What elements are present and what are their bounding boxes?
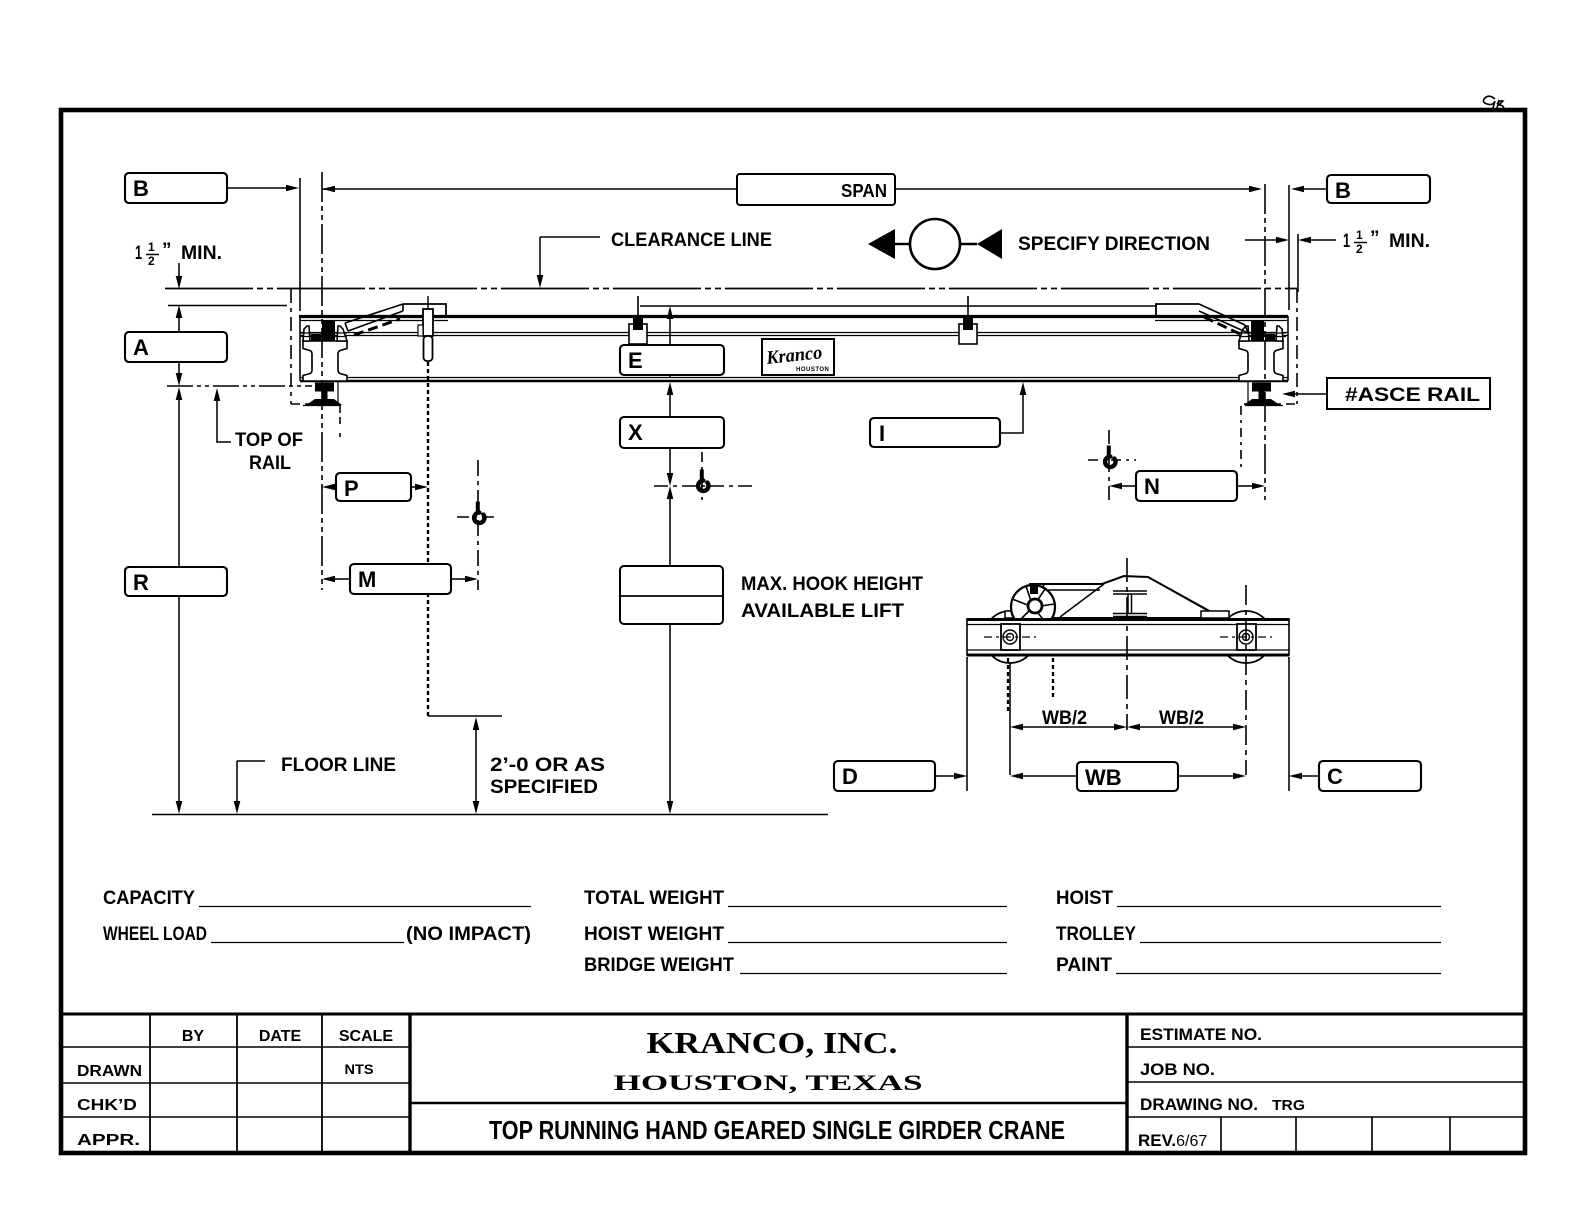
specify direction symbol xyxy=(868,219,1002,269)
trolley girder side view xyxy=(967,619,1289,655)
label box WB xyxy=(1077,762,1178,791)
label box P xyxy=(336,473,411,501)
svg-text:D: D xyxy=(842,764,858,789)
svg-text:B: B xyxy=(1335,178,1351,203)
hook height level arrows xyxy=(669,448,671,473)
trolley frame xyxy=(1005,576,1229,618)
girder fitting at E xyxy=(629,296,647,344)
hook centerline left xyxy=(477,460,479,590)
svg-text:HOUSTON: HOUSTON xyxy=(796,367,829,373)
svg-text:WB/2: WB/2 xyxy=(1159,708,1204,729)
girder bottom flange lines xyxy=(300,377,1288,379)
right platform xyxy=(1156,304,1199,316)
left wheel extension xyxy=(1009,663,1011,775)
text 1-1/2 MIN right xyxy=(1343,228,1430,256)
title block top border xyxy=(61,1013,1523,1016)
label box A xyxy=(125,332,227,362)
svg-text:B: B xyxy=(133,176,149,201)
svg-text:DRAWN: DRAWN xyxy=(77,1063,142,1080)
2-0 dimension line xyxy=(475,730,477,801)
B left leader xyxy=(227,187,286,189)
svg-text:MIN.: MIN. xyxy=(1389,231,1430,252)
svg-text:WB: WB xyxy=(1085,765,1122,790)
svg-text:C: C xyxy=(1327,764,1343,789)
clearance line xyxy=(165,288,1297,290)
end truck hidden outline left xyxy=(290,289,292,404)
WB/2 dimension lines xyxy=(1023,726,1233,728)
ASCE leader xyxy=(1295,393,1327,395)
svg-text:BY: BY xyxy=(182,1028,205,1045)
span dimension line xyxy=(322,188,1259,190)
left end truck wheel and rail xyxy=(300,321,347,406)
A dimension arrows xyxy=(178,318,180,332)
svg-text:AVAILABLE LIFT: AVAILABLE LIFT xyxy=(741,601,904,622)
rail centerline left xyxy=(321,172,323,590)
hoist chain xyxy=(427,362,429,716)
extension line girder end left xyxy=(299,178,301,311)
X line to floor xyxy=(669,624,671,801)
svg-text:1: 1 xyxy=(1356,228,1363,242)
R dimension line lower xyxy=(178,596,180,801)
svg-text:2: 2 xyxy=(148,254,155,268)
svg-text:1: 1 xyxy=(135,243,142,264)
girder end faces xyxy=(300,316,1288,381)
hook symbol N xyxy=(1107,446,1111,457)
rail centerline right xyxy=(1264,184,1266,500)
svg-text:CLEARANCE LINE: CLEARANCE LINE xyxy=(611,230,772,251)
label box SPAN xyxy=(737,174,895,205)
chain end bar xyxy=(428,715,502,717)
I leader xyxy=(1000,395,1023,433)
label box E xyxy=(620,345,724,375)
hidden hoist dash right xyxy=(1240,406,1242,470)
svg-text:R: R xyxy=(133,570,149,595)
right end truck wheel and rail xyxy=(1239,321,1286,406)
svg-text:CHK’D: CHK’D xyxy=(77,1097,137,1114)
B right leader xyxy=(1304,188,1327,190)
top of rail line xyxy=(167,385,312,387)
svg-text:SCALE: SCALE xyxy=(339,1028,394,1045)
girder top reference line left xyxy=(168,305,287,307)
label box I xyxy=(870,418,1000,447)
label box N xyxy=(1136,471,1237,501)
P arrows xyxy=(322,484,335,491)
svg-text:RAIL: RAIL xyxy=(249,453,291,474)
end truck hidden outline right xyxy=(1296,289,1298,404)
svg-text:MIN.: MIN. xyxy=(181,243,222,264)
svg-text:BRIDGE WEIGHT: BRIDGE WEIGHT xyxy=(584,955,734,976)
axle journal left xyxy=(984,624,1036,650)
svg-text:A: A xyxy=(133,335,149,360)
svg-text:DRAWING NO.: DRAWING NO. xyxy=(1140,1095,1258,1114)
label box B right xyxy=(1327,175,1430,203)
right diagonal brace xyxy=(1199,304,1248,333)
X upper arrow xyxy=(669,395,671,417)
svg-text:DATE: DATE xyxy=(259,1028,302,1045)
hand chains below xyxy=(1007,658,1009,712)
hand chain wheel xyxy=(1011,585,1055,629)
label box C xyxy=(1319,761,1421,791)
svg-text:HOIST: HOIST xyxy=(1056,888,1113,909)
svg-text:HOIST WEIGHT: HOIST WEIGHT xyxy=(584,924,724,945)
svg-text:MAX. HOOK HEIGHT: MAX. HOOK HEIGHT xyxy=(741,574,923,595)
svg-text:REV.6/67: REV.6/67 xyxy=(1138,1131,1207,1150)
extension line girder end right xyxy=(1288,185,1290,310)
trolley wheels xyxy=(984,611,1036,663)
svg-text:”: ” xyxy=(162,240,172,261)
floor line leader xyxy=(237,761,265,801)
R dimension line upper xyxy=(178,400,180,567)
title divider xyxy=(410,1102,1127,1105)
arrow 1.5min left xyxy=(178,263,180,276)
top of rail leader xyxy=(217,400,231,442)
handwritten mark xyxy=(1483,96,1504,108)
svg-text:NTS: NTS xyxy=(345,1061,374,1077)
svg-text:TROLLEY: TROLLEY xyxy=(1056,924,1136,945)
svg-text:APPR.: APPR. xyxy=(77,1132,140,1149)
hidden hoist dash left xyxy=(339,406,341,437)
D leader xyxy=(935,775,954,777)
svg-text:TOP RUNNING HAND GEARED SINGLE: TOP RUNNING HAND GEARED SINGLE GIRDER CR… xyxy=(489,1115,1065,1145)
N arrows xyxy=(1122,485,1136,487)
hook centerline X xyxy=(701,452,703,500)
clearance label leader xyxy=(540,237,600,276)
svg-text:E: E xyxy=(628,348,643,373)
label box R xyxy=(125,567,227,596)
svg-text:N: N xyxy=(1144,474,1160,499)
monorail line over girder xyxy=(640,305,1157,307)
left diagonal brace xyxy=(345,304,403,331)
label box D xyxy=(834,761,935,791)
svg-text:P: P xyxy=(344,476,359,501)
max hook height boxes xyxy=(620,566,723,624)
svg-text:ESTIMATE NO.: ESTIMATE NO. xyxy=(1140,1025,1262,1044)
svg-text:SPAN: SPAN xyxy=(841,181,887,201)
girder fitting mid-span xyxy=(959,296,977,344)
axle journal right xyxy=(1220,624,1272,650)
text 1-1/2 MIN left xyxy=(135,240,222,268)
hook symbol left xyxy=(476,502,480,513)
hoist trolley hanger on girder xyxy=(418,296,433,361)
svg-text:2: 2 xyxy=(1356,242,1363,256)
left table grid xyxy=(150,1014,322,1152)
svg-text:TOP OF: TOP OF xyxy=(235,430,303,451)
weight fill-in rules xyxy=(199,907,1441,974)
svg-text:FLOOR LINE: FLOOR LINE xyxy=(281,755,396,776)
label box M xyxy=(350,564,451,594)
svg-text:(NO IMPACT): (NO IMPACT) xyxy=(406,924,531,945)
trolley centerline xyxy=(1126,558,1128,730)
label box ASCE RAIL xyxy=(1327,378,1490,409)
label box X xyxy=(620,417,724,448)
E upper arrow xyxy=(669,319,671,345)
svg-text:#ASCE RAIL: #ASCE RAIL xyxy=(1345,385,1480,406)
hook symbol X xyxy=(700,470,704,481)
svg-text:M: M xyxy=(358,567,376,592)
beam edge extensions xyxy=(967,657,1289,791)
floor line xyxy=(152,814,828,816)
M arrows xyxy=(335,578,350,580)
right block xyxy=(1125,1014,1128,1153)
girder top plate underlines xyxy=(300,320,448,322)
Kranco logo plate xyxy=(762,339,834,375)
sheet border frame xyxy=(61,110,1525,1153)
svg-text:TOTAL WEIGHT: TOTAL WEIGHT xyxy=(584,888,724,909)
hook level dash line xyxy=(654,485,756,487)
right wheel centerline xyxy=(1245,585,1247,775)
svg-text:WB/2: WB/2 xyxy=(1042,708,1087,729)
C leader xyxy=(1302,775,1319,777)
svg-text:1: 1 xyxy=(148,240,155,254)
svg-text:2’-0 OR AS: 2’-0 OR AS xyxy=(490,755,605,776)
label box B left xyxy=(125,173,227,203)
hook cross dash left xyxy=(457,516,498,518)
extension line clearance right xyxy=(1297,234,1299,292)
svg-text:KRANCO, INC.: KRANCO, INC. xyxy=(647,1025,898,1060)
svg-text:I: I xyxy=(879,421,885,446)
svg-text:”: ” xyxy=(1370,228,1380,249)
girder top flange thick line xyxy=(299,315,1288,318)
hook cross dash N xyxy=(1088,459,1136,461)
E lower stub xyxy=(669,375,671,377)
girder upper flange double lines xyxy=(300,333,1288,336)
svg-text:PAINT: PAINT xyxy=(1056,955,1112,976)
svg-text:SPECIFY DIRECTION: SPECIFY DIRECTION xyxy=(1018,234,1210,255)
svg-text:WHEEL LOAD: WHEEL LOAD xyxy=(103,924,207,945)
svg-text:1: 1 xyxy=(1343,231,1350,252)
svg-text:X: X xyxy=(628,420,643,445)
hook centerline N xyxy=(1108,430,1110,502)
svg-text:CAPACITY: CAPACITY xyxy=(103,888,195,909)
svg-text:TRG: TRG xyxy=(1272,1097,1305,1114)
WB arrows xyxy=(1023,775,1077,777)
svg-text:SPECIFIED: SPECIFIED xyxy=(490,777,598,798)
arrows 1.5min right xyxy=(1245,239,1336,241)
svg-text:HOUSTON, TEXAS: HOUSTON, TEXAS xyxy=(614,1070,923,1095)
svg-text:JOB NO.: JOB NO. xyxy=(1140,1060,1215,1079)
left platform xyxy=(403,304,446,316)
